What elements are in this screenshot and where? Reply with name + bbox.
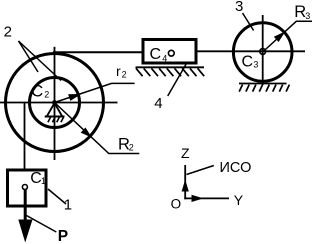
- force P shaft: [24, 189, 27, 221]
- pivot support base line: [45, 116, 65, 118]
- svg-text:2: 2: [122, 69, 127, 79]
- pulley 2 inner circle r2: [30, 78, 80, 128]
- wheel 3 circle: [233, 23, 292, 82]
- leader line to ISO label: [187, 166, 214, 175]
- svg-text:Z: Z: [181, 145, 190, 161]
- rope from block 4 to wheel 3: [196, 50, 305, 52]
- pulley 2 outer circle R2: [6, 54, 104, 152]
- svg-text:2: 2: [129, 143, 134, 153]
- svg-text:2: 2: [44, 90, 49, 100]
- Y axis arrowhead: [192, 195, 204, 202]
- svg-text:4: 4: [162, 54, 167, 64]
- rope from pulley 2 down to block 1: [24, 103, 26, 170]
- ground line under wheel 3: [239, 83, 287, 85]
- svg-text:C: C: [242, 54, 254, 71]
- Y axis line: [184, 197, 229, 199]
- block 1 rectangle: [8, 170, 47, 206]
- pivot support hatching: [48, 117, 64, 122]
- leader line from 3 to wheel rim: [243, 13, 254, 31]
- ground hatching under wheel 3: [239, 85, 289, 92]
- svg-text:C: C: [31, 82, 43, 101]
- r2 leader line: [55, 83, 135, 102]
- svg-text:1: 1: [64, 196, 72, 213]
- pulley 2 vertical axis line: [54, 47, 56, 160]
- ground hatching under block 4: [136, 68, 204, 76]
- pulley 2 horizontal axis line: [0, 102, 118, 104]
- leader line from 2 to inner rim: [19, 41, 62, 81]
- svg-text:C: C: [150, 46, 162, 63]
- svg-text:Y: Y: [234, 192, 244, 208]
- leader line to label P: [27, 216, 57, 233]
- R2 arrowhead at outer rim: [81, 128, 92, 138]
- svg-text:3: 3: [305, 11, 310, 21]
- leader line from 2 to outer rim: [19, 41, 39, 72]
- svg-text:ИСО: ИСО: [220, 160, 252, 176]
- svg-text:P: P: [58, 228, 68, 244]
- Z axis arrowhead: [182, 180, 189, 192]
- svg-text:1: 1: [41, 176, 46, 186]
- svg-text:2: 2: [4, 24, 12, 41]
- leader line from 4 to block: [168, 63, 187, 97]
- force P arrowhead: [18, 220, 32, 243]
- axis frame: Z axis line: [184, 165, 186, 199]
- R3 arrowhead at rim: [274, 31, 286, 42]
- svg-text:3: 3: [235, 0, 243, 15]
- svg-text:3: 3: [253, 60, 258, 70]
- small circle marker C1: [22, 185, 27, 190]
- R3 leader line: [263, 21, 312, 52]
- pivot support legs under C2: [47, 103, 62, 116]
- wheel 3 center small circle: [260, 49, 266, 55]
- r2 arrowhead at inner rim: [68, 94, 81, 101]
- svg-text:O: O: [171, 196, 182, 211]
- pulley 2 center dot: [52, 100, 57, 105]
- svg-text:r: r: [116, 63, 121, 79]
- R2 leader line: [55, 103, 140, 154]
- small circle marker C4: [168, 50, 174, 56]
- block 4 rectangle: [143, 40, 196, 64]
- wheel 3 vertical axis line: [262, 15, 264, 85]
- ground line under block 4: [136, 66, 205, 68]
- leader line from 1 to block: [48, 189, 66, 204]
- rope from pulley top to block 4: [53, 51, 143, 53]
- svg-text:4: 4: [154, 95, 162, 112]
